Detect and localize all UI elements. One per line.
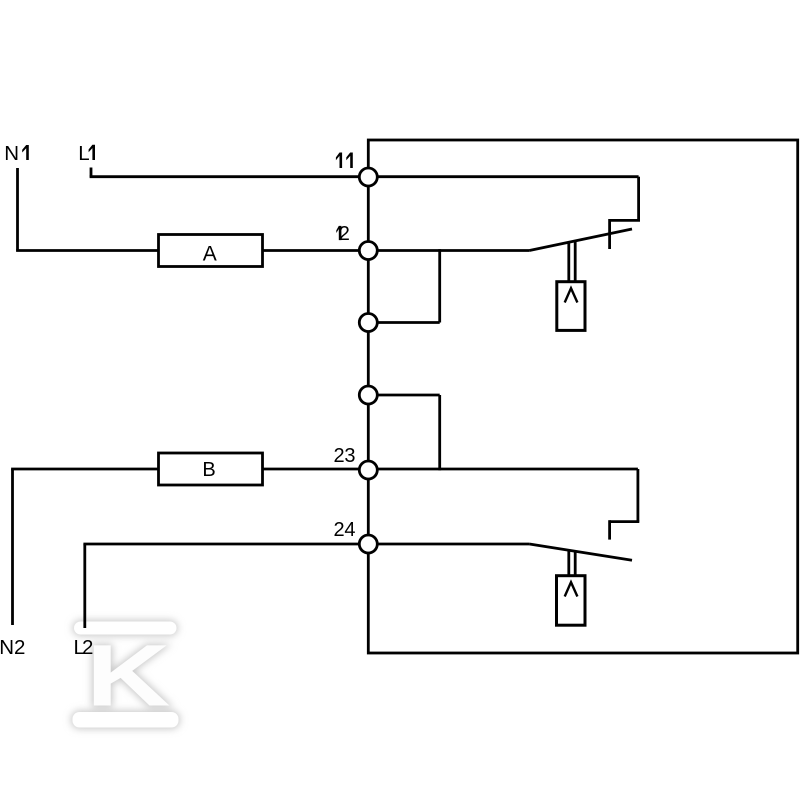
wire terminal 11 right	[368, 175, 638, 178]
svg-text:B: B	[202, 459, 215, 481]
terminal 23 node circle	[359, 461, 377, 479]
actuator link lines (top)	[569, 241, 575, 282]
wire N2 up	[11, 469, 14, 625]
node circle 4	[359, 386, 377, 404]
actuator box (top)	[557, 282, 585, 331]
coil A box	[159, 235, 263, 267]
switch blade (bottom contact)	[529, 544, 632, 560]
svg-text:2: 2	[82, 636, 93, 659]
wire L2 to terminal 24	[83, 543, 360, 546]
wire node3 stub	[368, 321, 439, 324]
svg-text:K: K	[86, 627, 170, 724]
relay outline box	[368, 140, 797, 653]
actuator box (bottom)	[557, 576, 586, 626]
wire L1 down	[90, 168, 93, 177]
wire terminal 24 right	[368, 543, 529, 546]
label 12	[336, 226, 341, 240]
switch blade (top contact)	[529, 229, 632, 251]
wire node4 down to 23 row	[438, 395, 441, 470]
wire fixed contact drop (bottom)	[637, 469, 640, 522]
wire node4 stub	[368, 394, 439, 397]
wire fixed contact drop (top)	[637, 177, 640, 221]
svg-text:N: N	[4, 142, 19, 165]
wire N1 to coil A	[16, 249, 158, 252]
svg-text:A: A	[203, 242, 217, 265]
terminal 11 node circle	[359, 168, 377, 186]
watermark K logo (white top layer)	[73, 622, 179, 728]
wire N1 down	[16, 168, 19, 251]
wire node3 up to 12 row	[438, 249, 441, 322]
actuator link lines (bottom)	[569, 550, 575, 576]
wire L2 up	[83, 544, 86, 628]
coil B box	[159, 453, 263, 485]
fixed contact tick (top)	[608, 219, 611, 249]
wire fixed contact step (bottom)	[610, 520, 640, 523]
wire terminal 12 right	[368, 249, 529, 252]
wire fixed contact step (top)	[610, 219, 640, 222]
wire terminal 23 right	[368, 468, 638, 471]
label 11	[336, 153, 342, 169]
actuator chevron (bottom)	[565, 582, 578, 596]
wire coil A to terminal 12	[263, 249, 361, 252]
terminal 12 node circle	[359, 242, 377, 260]
svg-text:2: 2	[339, 223, 350, 245]
svg-text:24: 24	[334, 519, 356, 541]
svg-text:N2: N2	[0, 636, 25, 659]
svg-text:L: L	[78, 142, 89, 165]
watermark K logo (gray glow layer)	[73, 622, 179, 728]
actuator chevron (top)	[565, 288, 578, 302]
fixed contact tick (bottom)	[608, 520, 611, 539]
wire L1 to terminal 11	[90, 175, 360, 178]
node circle 3	[359, 314, 377, 332]
wire coil B to terminal 23	[263, 468, 361, 471]
svg-text:23: 23	[334, 445, 356, 467]
wire N2 to coil B	[11, 468, 158, 471]
terminal 24 node circle	[359, 535, 377, 553]
